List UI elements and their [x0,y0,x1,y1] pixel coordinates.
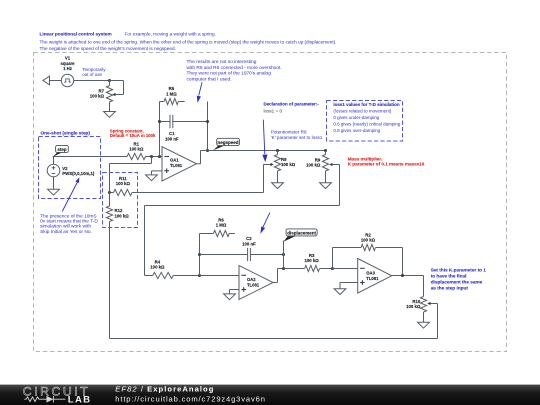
wire: OA2 output corner [273,282,278,284]
junction V1/R7 [108,79,111,82]
wire: R8 wiper to R11 rail [263,165,265,193]
wire: output down to R10 [423,276,425,297]
svg-text:OA3: OA3 [366,270,375,275]
svg-text:1 MΩ: 1 MΩ [216,223,227,228]
svg-text:LAB: LAB [68,395,92,405]
svg-text:0 gives under-damping: 0 gives under-damping [333,115,379,120]
voltage source V2 [47,164,60,177]
resistor R12 [109,193,111,207]
junction: R8 top [276,149,279,152]
svg-text:displacement the same: displacement the same [431,279,483,284]
wire: V2 bottom to ground [53,177,55,185]
wire: R11 rail [132,192,264,194]
one-shot dashed box [39,137,101,199]
loss1 values dashed box [327,101,403,142]
resistor R3 [305,265,320,271]
R11 R12 dashed box [103,173,138,228]
note arrow to R5 gap [199,82,202,95]
junction: C1 left [158,120,161,123]
wire: right feedback vertical (OA1) [207,102,209,151]
svg-text:displacement: displacement [287,230,316,235]
svg-text:100 kΩ: 100 kΩ [90,93,105,98]
resistor R6 [200,233,214,235]
capacitor C1 [160,121,171,123]
svg-text:They were not part of the 1970: They were not part of the 1970's analog [187,71,272,77]
op-amp OA1 [162,147,197,181]
junction: C2 right [282,253,285,256]
node flag terminal at V1 left [43,76,50,85]
svg-text:100 nF: 100 nF [165,136,179,141]
svg-text:100 nF: 100 nF [242,241,256,246]
svg-text:Default = 10uA in 100k: Default = 10uA in 100k [110,133,156,138]
svg-text:PWS(0,0,10m,1): PWS(0,0,10m,1) [62,171,95,176]
junction: C2 left [198,253,201,256]
svg-text:(losses related to movement): (losses related to movement) [333,109,392,114]
junction: OA2 inverting node [198,274,201,277]
wire: bottom rail [110,338,438,340]
ground below R8 [277,173,279,183]
ground below V2 [53,185,55,190]
svg-text:with R5 and R6 connected - mor: with R5 and R6 connected - more overshoo… [187,65,282,71]
svg-text:0.6 gives (nearly) critical da: 0.6 gives (nearly) critical damping [333,122,401,127]
potentiometer R10 [420,297,426,313]
wire: junction to R7 wiper loop [110,80,124,82]
wire: R2 feedback up [332,248,334,269]
svg-text:Set this K.parameter to 1: Set this K.parameter to 1 [431,268,487,273]
svg-text:0.9 gives over-damping: 0.9 gives over-damping [333,128,380,133]
capacitor C2 [200,254,248,256]
note arrow to R8 wiper [263,120,265,155]
svg-text:100 kΩ: 100 kΩ [150,265,165,270]
svg-text:For example, moving a weight w: For example, moving a weight with a spri… [125,32,216,37]
junction: R11 left / R12 top [108,191,111,194]
junction: feedback to output [206,149,209,152]
ground at OA2 + [229,291,231,294]
wire: R9 wiper to OA2 input run [339,165,341,206]
svg-text:http://circuitlab.com/c729z4g3: http://circuitlab.com/c729z4g3vav6n [115,394,265,403]
wire: R1 to OA1 inverting input [146,156,163,158]
ground below R7 [109,105,111,112]
svg-text:1 MΩ: 1 MΩ [166,91,177,96]
svg-text:The weight is attached to one: The weight is attached to one end of the… [40,39,337,44]
svg-text:One-shot (single step): One-shot (single step) [41,130,91,135]
resistor R11 [110,192,114,194]
svg-text:'K' parameter set to loss1: 'K' parameter set to loss1 [271,135,323,140]
junction: R1 right / feedback jog [150,155,153,158]
schematic outer dashed frame [34,53,507,352]
wire: R2 feedback down [402,248,404,276]
svg-text:out of use: out of use [82,72,102,77]
svg-text:TL081: TL081 [170,163,183,168]
node flag: negspeed [213,145,225,150]
wire: V2 top to step node [53,157,55,165]
op-amp OA3 [358,259,392,294]
svg-text:V1: V1 [65,56,71,61]
voltage source V1 (square) [61,74,73,86]
wire: OA1 + input to ground [152,170,163,172]
note arrow to C2/R6 gap [263,213,270,228]
wire: displacement rail [278,268,305,270]
svg-text:Linear positional control syst: Linear positional control system [40,32,112,37]
note arrow to V2 PWS [62,181,78,212]
ground at OA3 + [339,288,341,289]
potentiometer R8 [277,151,279,155]
svg-text:Declaration of parameter:-: Declaration of parameter:- [264,102,320,107]
wire: OA1 output corner [197,163,201,165]
svg-text:OA1: OA1 [170,157,179,162]
wire: jog down-left to R11 column [151,157,153,164]
svg-text:loss1 values for T-D simulatio: loss1 values for T-D simulation [333,102,400,107]
svg-text:K parameter of 0.1 means massx: K parameter of 0.1 means massx10 [348,162,425,167]
ground at OA1 + [151,172,153,175]
junction: C1 right [206,120,209,123]
svg-text:100 kΩ: 100 kΩ [129,147,144,152]
svg-text:100 kΩ: 100 kΩ [116,181,131,186]
wire: OA2 left feedback vertical [199,234,201,276]
junction: R2 on output [401,274,404,277]
svg-text:R2: R2 [365,232,371,237]
ground below R9 [325,173,327,183]
svg-text:negspeed: negspeed [218,140,239,145]
svg-text:simulation will work with: simulation will work with [40,224,91,230]
svg-text:0v start means that the T-D: 0v start means that the T-D [40,219,98,225]
footer bar [0,385,540,405]
svg-text:100 kΩ: 100 kΩ [115,213,130,218]
op-amp OA2 [239,266,273,300]
svg-text:1 Hz: 1 Hz [63,66,72,71]
svg-text:to have the final: to have the final [431,274,467,279]
wire: OA3 + to ground [340,282,358,284]
svg-text:100 kΩ: 100 kΩ [304,258,319,263]
wire: displacement vertical [283,241,285,269]
svg-text:EF82 / ExploreAnalog: EF82 / ExploreAnalog [115,384,214,393]
junction: displacement branch [282,267,285,270]
wire: OA3 output rail [392,275,424,277]
svg-text:100 kΩ: 100 kΩ [306,162,321,167]
resistor R2 [361,244,375,250]
resistor R4 [145,275,153,277]
svg-text:loss1 = 0: loss1 = 0 [264,109,283,114]
node flag: displacement [284,236,297,242]
svg-text:computer that I used.: computer that I used. [187,76,232,82]
resistor R1 [127,153,146,159]
svg-text:Potentiometer R8: Potentiometer R8 [271,129,307,134]
junction: R9 top [324,149,327,152]
wire: flag to V1 [50,80,62,82]
wire: negspeed rail [201,150,326,152]
svg-text:as the step input: as the step input [431,285,469,290]
svg-text:100 kΩ: 100 kΩ [361,238,376,243]
svg-text:The presence of the 10mS: The presence of the 10mS [40,213,97,219]
wire: left feedback vertical (OA1) [159,102,161,157]
junction: OA3 inverting node [331,267,334,270]
node flag: step [53,152,63,157]
junction: C1R5 branch on OA1 input [158,155,161,158]
svg-text:step: step [57,147,67,152]
wire: R4 to OA2 - [200,275,240,277]
wire: OA2 + to ground [230,289,240,291]
svg-text:100 kΩ: 100 kΩ [406,304,421,309]
svg-text:The negative of the speed of t: The negative of the speed of the weight'… [40,46,176,51]
svg-text:R11: R11 [119,176,127,181]
svg-text:TL081: TL081 [366,276,379,281]
wire: R3 to OA3 - [333,268,358,270]
svg-text:OA2: OA2 [247,277,256,282]
resistor R5 [160,101,165,103]
potentiometer R7 [109,81,111,86]
svg-text:Skip Initial as Yes or No.: Skip Initial as Yes or No. [40,229,92,235]
wire: step to R1 [53,156,127,158]
svg-text:The results are not so interes: The results are not so interesting [187,59,257,65]
ground below R10 [423,313,425,323]
logo resistor-diode glyph [24,397,46,402]
potentiometer R9 [325,151,327,155]
wire: V1 to R7 top [74,80,110,82]
svg-text:TL081: TL081 [247,282,260,287]
svg-text:100 kΩ: 100 kΩ [281,162,296,167]
